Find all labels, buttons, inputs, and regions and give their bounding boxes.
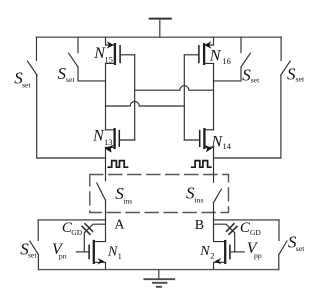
svg-text:14: 14 [223,141,232,151]
wire: bottom-right branch lower [278,255,280,270]
wire: right column down to S_ins [213,147,215,182]
svg-text:set: set [296,244,305,253]
svg-text:set: set [251,76,260,85]
wire: outer-left branch upper [36,37,38,60]
svg-text:pn: pn [59,251,67,260]
svg-text:set: set [296,74,305,83]
switch S_ins (left) blade [97,183,106,200]
svg-text:1: 1 [118,251,122,261]
svg-text:GD: GD [250,228,261,237]
svg-text:set: set [28,250,37,259]
switch S_set (outer right) blade [281,61,291,75]
transistor N13 [105,129,135,152]
svg-text:2: 2 [210,251,214,261]
wire: outer-left branch lower [37,75,106,158]
svg-text:ins: ins [194,195,203,204]
svg-text:15: 15 [104,54,113,64]
wire: inner-left branch lower [78,67,106,81]
switch S_ins (right) blade [214,189,222,203]
wire: bottom-left branch lower [37,255,39,270]
wire: right column N16 source to N14 drain [213,81,215,130]
node A wire [38,219,105,221]
svg-text:N: N [209,48,222,65]
svg-text:set: set [66,75,75,84]
svg-text:set: set [22,80,31,89]
svg-text:N: N [199,244,210,259]
pulse symbol left [108,161,127,168]
capacitor C_GD (right) [214,224,237,252]
wire: cross-coupling vertical right (gates of N16,N14) [183,55,185,140]
switch S_set (inner right) blade [241,53,250,67]
wire: left column down to S_ins [105,147,107,180]
node B wire [214,219,280,221]
switch S_set (bottom right) blade [279,241,287,255]
transistor N2 [214,220,245,270]
transistor N16 [184,37,213,81]
transistor N1 [76,220,105,270]
dashed box (insertion block) [90,175,229,213]
svg-text:A: A [114,218,125,233]
wire: inner-right branch lower [214,67,242,81]
svg-text:B: B [195,218,204,233]
wire: inner-left branch upper [77,37,79,52]
switch S_set (outer left) blade [27,61,37,75]
transistor N15 [106,37,135,81]
svg-text:GD: GD [71,228,82,237]
capacitor C_GD (left) [82,224,105,252]
transistor N14 [184,129,213,152]
switch S_set (inner left) blade [69,53,78,67]
wire: bottom-right branch upper [278,220,280,241]
svg-text:ins: ins [123,196,132,205]
wire: right column below S_ins to node B [213,203,215,220]
svg-text:16: 16 [222,56,231,66]
svg-text:13: 13 [104,137,113,147]
wire: outer-right branch lower [214,75,281,158]
top rail [37,36,282,38]
svg-text:N: N [210,133,223,150]
top supply tap [150,19,171,38]
wire: left column below S_ins to node A [105,200,107,220]
bottom rail [38,269,278,271]
wire: left column N15 source to N13 drain [105,81,107,130]
ground [144,270,174,287]
wire: bottom-left branch upper [37,220,39,241]
wire: cross-coupling vertical left (gates of N15,N13) [134,55,136,140]
svg-text:N: N [107,245,118,260]
wire: cross link 1 with hop over right gate line [135,86,214,91]
wire: inner-right branch upper [240,37,242,52]
wire: outer-right branch upper [280,37,282,60]
svg-text:pp: pp [254,251,262,260]
pulse symbol right [192,161,211,168]
wire: cross link 2 with hop over left gate line [106,102,185,107]
switch S_set (bottom left) blade [30,241,39,254]
